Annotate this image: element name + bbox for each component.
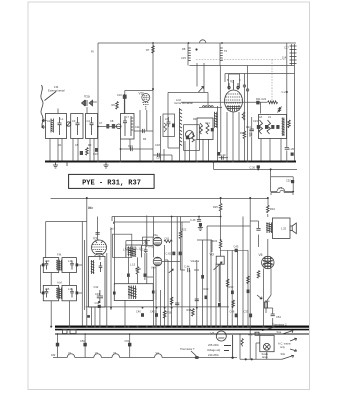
capacitor C24 [250,132,252,136]
title box frame [69,174,155,188]
svg-text:R.26: R.26 [136,267,142,271]
aerial arrow 1 [42,119,47,122]
capacitor C7 in AM box [45,289,49,298]
wire x189.5 drop [189,139,191,162]
svg-text:R22: R22 [182,228,187,232]
svg-text:C1: C1 [47,119,51,123]
wire V1a to cathode line [90,101,97,103]
svg-text:L.16: L.16 [125,247,131,251]
svg-text:C34: C34 [95,301,100,305]
coupling box L14 [113,234,132,257]
svg-text:R11 C22: R11 C22 [256,97,267,101]
components top section [41,46,297,192]
svg-text:L18: L18 [68,287,73,291]
wire x197 IF down [196,63,198,87]
mains arrow 2 [290,349,297,351]
svg-text:C24: C24 [249,129,254,133]
capacitor C48 blob [235,314,238,318]
wire x232.2 [231,250,233,326]
AM transformer terminal left [113,292,116,295]
svg-text:C51: C51 [125,339,130,343]
heater hump V4 [155,354,163,358]
capacitor C54 [271,314,275,316]
svg-text:L15: L15 [45,287,50,291]
wire x272.7 above cap [272,308,274,314]
wire x147 upper [146,216,148,248]
resistor diagonal in osc box 1 [200,123,203,134]
speaker [290,223,296,234]
wire L4 L5 [199,106,222,108]
valve V1b envelope [142,94,150,102]
svg-text:C7: C7 [99,121,103,125]
wire x207.1 [206,226,208,327]
valve V1a grid ticks [86,100,88,106]
wire x137.5 low [137,274,139,284]
capacitor bottom 6 [195,299,199,301]
oscillator sub box [184,125,200,151]
svg-text:C21: C21 [205,121,210,125]
coil L7 in box T4 [131,116,133,136]
wire x106.8 [106,253,108,327]
capacitor C52 blob [291,180,294,183]
scale lamp cross [264,344,269,349]
heater hump V2 [94,354,102,358]
svg-text:L14: L14 [68,259,73,263]
capacitor C17 stack ticks [290,46,297,64]
capacitor C42 blob [155,313,158,317]
capacitor in box T4 [123,116,127,136]
wire V4a feed [152,217,154,258]
wire y270 cap run [194,269,199,271]
resistor R34 [267,205,270,213]
wire y222 [113,222,190,224]
capacitor C51 blob [128,343,131,347]
wire heater chain [53,357,237,359]
svg-text:114: 114 [282,56,287,60]
tuning gang arrow [199,87,204,93]
svg-text:C50: C50 [80,339,85,343]
capacitor C28 arrowed [278,107,282,113]
svg-text:C.20: C.20 [220,153,226,157]
wire y308 link [266,307,273,309]
capacitor C12 [143,129,145,133]
wire C10 vertical [124,90,126,113]
svg-text:only: only [280,345,285,349]
FM terminal right [76,263,79,266]
coil in box T1 [51,119,53,133]
valve V2 pin circle a [243,85,245,87]
capacitor C19 [131,147,133,151]
svg-text:R.37: R.37 [248,333,254,337]
AM IF transformer left box [43,285,58,300]
svg-text:V4: V4 [156,351,160,355]
wire x180 [180,217,182,232]
svg-text:Voltage adj: Voltage adj [207,348,220,352]
wire left main vertical [97,43,99,162]
wire y221 to cap [250,220,258,222]
wire HT rail bottom section [51,199,269,206]
svg-text:R13: R13 [240,131,245,135]
svg-text:205-230v: 205-230v [208,343,220,347]
AM transformer terminal right [152,291,155,294]
wire y73.5 right [225,73,295,75]
fuse symbol [265,302,268,308]
coil L5 [208,106,213,108]
transformer box T3a [86,114,98,139]
capacitor C49 blob [56,343,59,347]
svg-text:V3: V3 [113,351,117,355]
wire x220.8 [220,106,222,153]
svg-text:V2: V2 [230,80,234,84]
resistor diagonal in osc box 2 [206,123,209,134]
ground tick left [66,162,68,167]
svg-text:lamp: lamp [262,355,268,359]
wire x171.6 [171,217,173,327]
AM IF transformer right box [62,285,76,300]
capacitor C62 blob [172,252,175,256]
junction dots top [97,42,294,192]
capacitor C1 in box T1 [58,117,62,135]
wire V2 pins down [227,112,239,162]
wire x220.6 low [220,248,222,256]
heater hump V3 [112,354,120,358]
wire R7 branch vertical [152,43,154,162]
svg-text:C.25: C.25 [289,147,295,151]
svg-text:R40: R40 [149,245,154,249]
svg-text:C19: C19 [128,144,133,148]
wire x267.8 to V5 [267,239,269,256]
wire mains rail B [55,329,309,331]
svg-text:C.46: C.46 [190,218,196,222]
svg-text:Thermistor T: Thermistor T [180,347,195,351]
wire y126.5 left [98,126,121,128]
wire x140 V1b down [139,110,141,162]
svg-text:R1: R1 [58,143,62,147]
wire box1 top feed [57,109,59,114]
svg-text:C52: C52 [286,179,291,183]
wire x211 [210,240,212,327]
wire x99.9 below tall box [99,307,101,327]
svg-text:C54: C54 [276,315,281,319]
capacitor C16 [158,153,160,157]
valve V2 cathode hatch [227,105,241,111]
capacitor C8 in AM box [70,289,74,298]
capacitor C34 blob [98,305,101,308]
wire x160.5 lower [160,290,162,327]
capacitor block 2 y126 [112,124,115,129]
wire x227.7 [227,250,229,326]
thermistor bead [195,356,199,359]
AM terminal right [76,291,79,294]
wire x146.8 [128,253,146,284]
AM output transformer windings [128,286,137,300]
node dots on rails [152,88,154,90]
wire x111 long [110,228,112,310]
svg-text:S1b: S1b [281,352,286,356]
wire y155 [153,154,172,156]
resistor R31 [232,300,235,308]
wire x180 low [181,239,186,270]
capacitor blob x88.5 [87,315,90,318]
svg-text:R2: R2 [88,143,92,147]
resistor R22 [179,231,182,239]
wire x168 short [167,260,169,327]
wire x219.2 [218,264,220,302]
rectifier V1 [216,331,226,341]
svg-text:R4: R4 [143,137,147,141]
wire y250.3 [220,249,248,251]
capacitor C40 blob [141,313,144,317]
svg-text:C61: C61 [165,237,170,241]
wire x160.5 top drop [160,116,162,162]
svg-text:V1b: V1b [139,92,145,96]
capacitor blob osc T2 [211,128,214,131]
resistor diagonal T5 1 [259,120,263,134]
valve V4b [153,257,162,266]
wire rail hump [200,40,206,43]
thermistor pointer line [191,351,196,356]
capacitor blob T5 c [271,125,274,129]
wire x57.5 heater drop [57,334,59,358]
voltage adj lines [224,335,233,358]
transformer box T1 FM [46,114,67,139]
wire x294.5 down [294,74,296,162]
capacitor bottom 4 [175,303,179,305]
svg-text:C5: C5 [75,143,79,147]
valve V4b grid [154,258,161,265]
svg-text:R7: R7 [146,48,150,52]
wire mains rail C [55,333,309,335]
wire V4 pins [156,245,165,327]
capacitor C23 [250,129,254,131]
svg-text:R36: R36 [167,311,172,315]
capacitor blob osc box [186,136,189,140]
svg-text:V1: V1 [211,332,215,336]
valve V1a electrodes [82,100,93,106]
wire jumper with hump [271,190,293,195]
capacitor C41 right [144,249,148,254]
node dots bottom [86,197,88,199]
svg-text:R34: R34 [270,207,275,211]
capacitor blob x96.5 [95,148,98,152]
svg-text:Fil: Fil [91,50,94,54]
switch contact 2K [169,269,173,273]
wire HT top rail [98,42,296,44]
wire x156 [155,290,157,327]
resistor R24 [219,241,222,249]
wire dashed vertical [271,60,273,103]
wire x272.7 below cap [272,318,274,327]
capacitor C37 blob [247,290,250,294]
wire y260 v4 link [165,259,168,261]
wire T3 pins down [261,139,281,162]
valve V2 pin circle b [246,89,248,91]
trimmer between boxes [66,122,70,126]
wire x97.6 V3 top [97,217,99,241]
svg-text:External aerial: External aerial [48,89,65,93]
thermistor box on rail [63,330,68,334]
capacitor C26 blob [257,165,260,168]
wire x221.3 below vol [219,264,221,326]
wire osc coil T6 vertical [219,43,221,66]
wire x185 [184,141,186,162]
wire heater return below rail [214,163,298,170]
resistor R25 [219,203,222,211]
wire x244.4 [243,74,245,132]
wire x237.5 [237,250,239,326]
svg-text:F.M.: F.M. [57,253,62,257]
resistor R35 box on rail [70,330,76,334]
wire x146.8 [146,110,148,131]
capacitor blob T5 b [265,125,268,129]
AM terminal left [42,291,45,294]
svg-text:R9: R9 [193,117,197,121]
wire y131 [134,130,153,132]
resistor R13 [243,131,246,139]
trimmer arrow [67,122,71,127]
FM terminal left [42,263,45,266]
valve V5 anode hatch [263,256,273,269]
oscillator box [197,118,213,140]
wire right cap stack verticals [292,44,295,74]
wire mains rail A [55,326,309,328]
wire V3 pins down [95,255,103,261]
wire x217.5 [217,106,219,162]
capacitor C42b blob [144,274,147,277]
svg-text:C33: C33 [244,310,249,314]
resistor R7 [152,46,155,54]
wire x95 below tall box [94,307,96,327]
wire selector left drop [256,343,260,359]
mains arrow 1 [290,338,297,341]
FM transformer windings [56,260,62,271]
ground symbol far left [53,162,58,169]
svg-text:V4b: V4b [151,266,156,270]
wire frame aerial left [167,93,169,149]
switch S1b [282,355,294,359]
valve V3 envelope [92,240,107,255]
resistor R33 cathode [257,271,260,279]
svg-text:C4: C4 [87,119,91,123]
svg-text:C23: C23 [253,119,258,123]
wire x189.8 [189,270,191,327]
capacitor C49b blob [249,314,252,318]
svg-text:A.C. mains: A.C. mains [278,342,291,346]
wire x202.4 [201,240,203,327]
wire y157.7 short [219,157,228,159]
capacitor blob x292 [291,153,294,156]
valve V4a [153,237,162,246]
wire x267.8 mid [267,214,269,217]
svg-text:L.17: L.17 [137,247,143,251]
wire x220.3 down [219,66,221,107]
capacitor C38 blob [231,291,234,295]
svg-text:V1a: V1a [84,95,90,99]
svg-text:240-250v: 240-250v [208,353,220,357]
capacitor C39 blob [201,275,204,279]
svg-text:C48: C48 [230,310,235,314]
wire V1a pins [86,107,88,114]
AM output transformer box [114,284,153,301]
svg-text:A.M.: A.M. [57,280,63,284]
svg-text:C16: C16 [93,152,98,156]
svg-text:ferrite rod aerial: ferrite rod aerial [175,101,194,105]
svg-text:R24: R24 [213,239,218,243]
valve V3 top cap [98,239,99,241]
svg-text:C40: C40 [136,310,141,314]
resistor diagonal osc sub [192,134,195,143]
svg-text:R25: R25 [213,205,218,209]
resistor bottom 6b [170,297,173,305]
wire rail y221.5 [46,221,87,223]
svg-text:Volume: Volume [191,259,200,263]
wire x220.6 mid [220,211,222,241]
wire x182 long [181,222,183,327]
wire x286.8 long vertical [286,43,288,147]
ferrite rod coil hatch [180,108,183,148]
svg-text:V1: V1 [68,351,72,355]
svg-text:2to7: 2to7 [110,227,116,231]
resistor R61 horizontal [164,240,172,243]
resistor R27 [226,279,229,287]
svg-text:R29: R29 [204,287,209,291]
wire x125 L12 drop [124,300,126,326]
resistor R12b small [242,112,245,120]
wire mixer row y102.3 [181,101,267,103]
capacitor blob T5 a [257,125,260,129]
svg-text:C17: C17 [284,46,289,50]
aerial arrow 2 [42,126,47,129]
output transformer windings [266,222,272,233]
capacitor C46 blob [199,223,202,227]
resistor x86.9 [86,148,89,156]
coil in tall box [91,260,95,274]
svg-text:C.44: C.44 [184,265,190,269]
svg-text:F.M.: F.M. [54,85,59,89]
wire V5 heater loop [271,169,294,191]
wire x247.6 [247,66,249,162]
svg-text:R16: R16 [88,206,93,210]
svg-text:V4a: V4a [153,233,158,237]
capacitor C42a blob [127,274,130,277]
wire box4 pins [124,94,130,149]
svg-text:C.2: C.2 [282,90,287,94]
valve V5 cathode hatch [265,266,272,268]
capacitor blob R11 end [256,101,259,105]
wire x244.4 low [243,139,245,162]
wire x91.4 drop [90,307,92,327]
capacitor in tall box [99,262,103,272]
wire x220.6 upper [220,198,222,203]
svg-text:182: 182 [51,353,56,357]
svg-text:C8: C8 [110,119,114,123]
junction dots bottom [50,197,274,360]
wire x172 drop [171,155,173,162]
svg-text:R12: R12 [246,125,251,129]
wire x240 drop [239,334,241,359]
capacitor C46 [197,220,201,222]
ground symbol main [103,162,108,169]
scale lamp [263,343,270,350]
capacitor C35 [96,233,100,235]
resistor R6 [116,102,119,110]
wire x260.5 [260,102,262,113]
wire x286.8 lower [286,151,288,162]
svg-text:fuse: fuse [265,299,270,303]
IF transformer box T5 [259,115,287,139]
tiny labels bottom [45,205,291,359]
wire anode line y90.4 [125,89,153,91]
